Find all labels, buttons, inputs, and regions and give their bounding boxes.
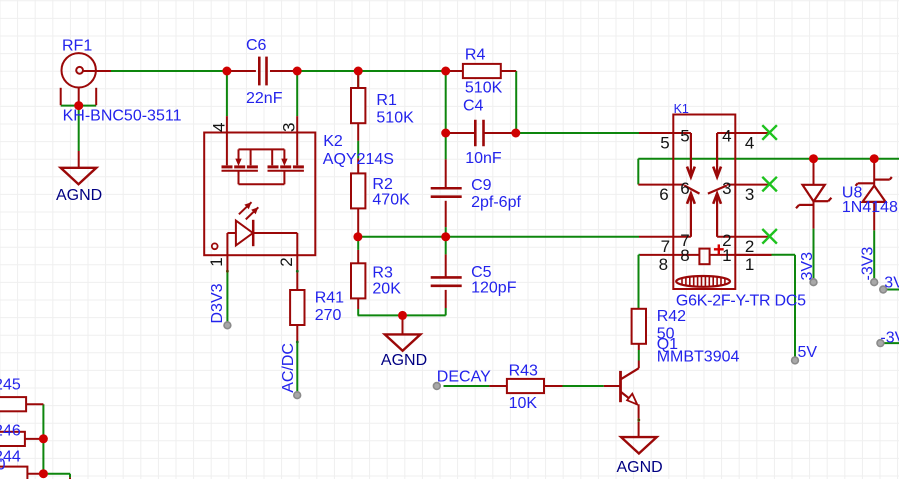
svg-text:270: 270 <box>315 307 342 324</box>
svg-text:3: 3 <box>280 123 299 132</box>
svg-text:4: 4 <box>745 133 754 152</box>
svg-text:R2: R2 <box>372 176 393 193</box>
svg-text:R41: R41 <box>315 289 344 306</box>
svg-text:2: 2 <box>745 237 754 256</box>
svg-text:7: 7 <box>661 237 670 256</box>
svg-text:G6K-2F-Y-TR DC5: G6K-2F-Y-TR DC5 <box>676 293 806 310</box>
svg-text:1N4148: 1N4148 <box>842 199 898 216</box>
svg-text:3: 3 <box>745 185 754 204</box>
svg-text:R4: R4 <box>465 47 486 64</box>
svg-text:-3V3: -3V3 <box>880 330 899 347</box>
svg-text:5V: 5V <box>798 344 818 361</box>
svg-text:K1: K1 <box>674 102 689 116</box>
svg-text:C6: C6 <box>246 37 267 54</box>
svg-text:C5: C5 <box>471 264 492 281</box>
svg-text:20K: 20K <box>372 281 401 298</box>
svg-text:AQY214S: AQY214S <box>323 151 394 168</box>
svg-text:C9: C9 <box>471 177 492 194</box>
svg-text:R1: R1 <box>376 92 397 109</box>
svg-text:22nF: 22nF <box>246 90 283 107</box>
svg-text:AGND: AGND <box>381 352 427 369</box>
svg-text:R245: R245 <box>0 377 21 394</box>
svg-text:2: 2 <box>277 257 296 266</box>
svg-text:6: 6 <box>659 185 668 204</box>
svg-text:C4: C4 <box>463 98 484 115</box>
svg-text:AC/DC: AC/DC <box>280 343 297 393</box>
svg-text:510K: 510K <box>465 80 503 97</box>
svg-text:R43: R43 <box>509 363 538 380</box>
svg-text:MMBT3904: MMBT3904 <box>657 349 740 366</box>
svg-text:K2: K2 <box>323 133 343 150</box>
svg-text:5: 5 <box>680 127 689 146</box>
svg-text:DECAY: DECAY <box>437 369 491 386</box>
svg-text:2pf-6pf: 2pf-6pf <box>471 194 521 211</box>
svg-text:120pF: 120pF <box>471 280 517 297</box>
svg-text:AGND: AGND <box>617 459 663 476</box>
svg-text:4: 4 <box>209 123 228 132</box>
svg-text:KH-BNC50-3511: KH-BNC50-3511 <box>63 108 182 125</box>
svg-text:D3V3: D3V3 <box>209 283 226 323</box>
svg-text:10K: 10K <box>509 395 538 412</box>
svg-text:470K: 470K <box>372 192 410 209</box>
svg-text:-3V3: -3V3 <box>859 247 876 281</box>
svg-text:0: 0 <box>0 456 6 473</box>
svg-text:6: 6 <box>680 179 689 198</box>
svg-text:3: 3 <box>722 179 731 198</box>
svg-text:RF1: RF1 <box>62 37 92 54</box>
svg-text:8: 8 <box>680 246 689 265</box>
svg-text:5: 5 <box>660 133 669 152</box>
svg-text:3V3: 3V3 <box>799 252 816 281</box>
svg-text:1: 1 <box>745 255 754 274</box>
svg-text:510K: 510K <box>376 109 414 126</box>
svg-text:R42: R42 <box>657 308 686 325</box>
svg-text:1: 1 <box>207 257 226 266</box>
svg-text:R3: R3 <box>372 265 393 282</box>
svg-text:10nF: 10nF <box>465 150 502 167</box>
svg-text:1: 1 <box>722 246 731 265</box>
svg-text:8: 8 <box>659 255 668 274</box>
svg-text:AGND: AGND <box>56 187 102 204</box>
svg-text:4: 4 <box>722 127 731 146</box>
svg-text:R246: R246 <box>0 423 21 440</box>
svg-text:3V3: 3V3 <box>884 274 899 291</box>
